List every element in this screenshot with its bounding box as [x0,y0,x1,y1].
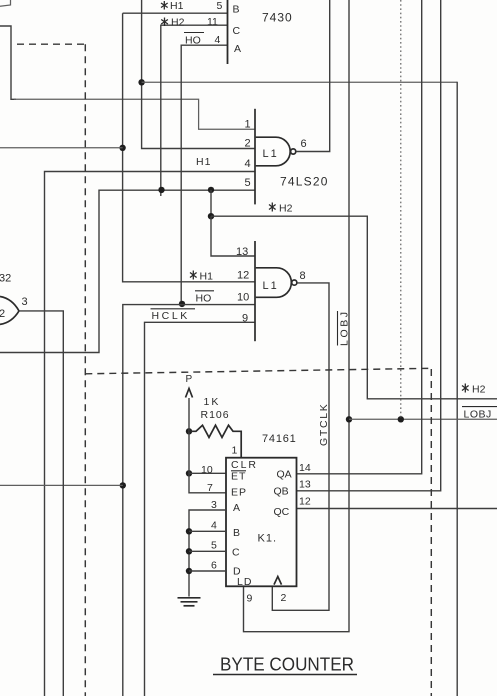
svg-text:7: 7 [207,482,213,494]
svg-text:EP: EP [231,487,247,499]
wire LOBJ vertical to K1 pin 9 [244,0,350,632]
svg-text:74LS20: 74LS20 [280,175,329,189]
wire QC to right edge [297,508,497,510]
svg-text:LOBJ: LOBJ [464,409,492,421]
node wire-y148 junction [119,145,125,151]
wire OR output 3 [19,311,63,696]
svg-text:QB: QB [274,486,289,498]
wire pin1 net (to L1 pin 1) [14,99,255,129]
svg-text:C: C [232,547,240,559]
node HO-pin10 junction [179,301,185,307]
svg-text:H1: H1 [196,156,211,168]
svg-text:K1.: K1. [258,533,278,545]
wire *H2 out to right edge [211,216,497,399]
svg-text:4: 4 [215,34,221,46]
wire HCLK pin 9 of L1b [145,322,256,696]
7430 U3 left edge [227,0,229,64]
svg-text:5: 5 [217,0,223,12]
node *H1 junction [138,79,144,85]
wire pin 6 D input [189,570,226,572]
svg-text:L1: L1 [263,148,279,160]
svg-text:13: 13 [299,479,311,491]
svg-text:3: 3 [211,499,217,511]
node D junction [186,568,192,574]
svg-text:9: 9 [242,313,248,325]
svg-text:H2: H2 [279,203,293,215]
svg-text:C: C [233,25,241,37]
label *H1 mid [190,271,213,283]
wire pin 3 A input [189,510,226,597]
wire *H2 drop [210,190,212,216]
wire pin1 net left bracket [0,26,16,99]
svg-text:14: 14 [299,462,311,474]
gate L1a input bar [254,109,256,205]
svg-text:1: 1 [245,119,251,131]
node LOBJ junction [346,416,352,422]
svg-text:HO: HO [196,293,212,305]
node x400 junction [398,416,404,422]
svg-text:5: 5 [211,540,217,552]
label HO top [184,33,221,47]
wire left entry y148 [0,147,123,149]
wire H1 net (pin 4 of L1) [45,172,256,696]
svg-text:4: 4 [245,158,251,170]
wire *H1 vertical from top to L1 pin 2 [142,0,255,149]
label HO mid [195,291,214,305]
dashed line left x85 [84,44,86,696]
wire pin 10 (ET) [189,472,226,474]
wire *H1 horizontal to 7430 pin 5 [123,12,228,14]
svg-text:R106: R106 [201,409,230,421]
label LOBJ vertical [338,309,351,346]
label *H2 mid [269,203,293,215]
wire left entry y485 [0,484,123,486]
svg-text:4: 4 [211,520,217,532]
svg-text:HCLK: HCLK [152,310,190,322]
svg-text:10: 10 [237,292,249,304]
nand gate L1a bubble [291,149,296,154]
wire pin 5 C input [189,550,226,552]
svg-text:2: 2 [245,138,251,150]
svg-text:74161: 74161 [262,433,297,445]
wire LOBJ out to right edge [349,418,497,420]
svg-text:B: B [233,527,240,539]
svg-text:32: 32 [0,273,11,285]
node pin5-H2 junction [208,187,214,193]
wire HO net pin 10 of L1b [123,305,255,696]
svg-text:LOBJ: LOBJ [339,309,351,346]
svg-text:5: 5 [245,177,251,189]
dashed box top-left [17,43,86,45]
wire pin 4 B input [189,530,226,532]
svg-text:6: 6 [301,138,307,150]
wire *H1 branch to pin 12 via x122 [123,13,255,282]
wire *H1 branch x457 vertical [456,82,458,696]
wire *H2 to 7430 pin 11 [161,25,228,196]
label ET overlined [231,471,246,483]
svg-text:A: A [233,502,240,514]
nand gate L1b bubble [292,280,297,285]
node C junction [186,548,192,554]
svg-text:A: A [234,43,241,55]
svg-text:B: B [233,4,240,16]
label *H2 right [462,384,486,396]
label BYTE COUNTER [213,654,357,675]
svg-text:8: 8 [300,270,306,282]
svg-text:12: 12 [299,496,311,508]
svg-text:2: 2 [0,308,5,320]
chip K1 74161 [226,458,297,587]
dashed box byte-counter top [85,368,431,374]
wire QA to top x422 [297,0,422,474]
svg-text:2: 2 [281,592,287,604]
wire QB to top x441 [297,0,441,491]
clock triangle K1 [274,577,282,585]
node B junction [186,528,192,534]
resistor R106 [189,425,241,458]
svg-text:12: 12 [237,270,249,282]
nand gate L1a body [256,137,290,166]
svg-text:H1: H1 [170,0,184,12]
svg-text:11: 11 [207,16,218,28]
svg-text:ET: ET [231,471,246,483]
wire output 8 / GTCLK to K1 pin 2 [272,283,329,610]
svg-text:LD: LD [237,576,252,588]
wire x400 dotted vertical [400,0,402,419]
svg-text:GTCLK: GTCLK [318,402,330,446]
svg-text:HO: HO [185,35,201,47]
dashed box byte-counter right [430,369,432,696]
label LOBJ right overlined [462,407,497,421]
wire pin 13 of L1b [211,216,255,256]
node P-pin10 junction [186,470,192,476]
svg-text:H1: H1 [200,271,214,283]
svg-text:H2: H2 [472,384,486,396]
wire P pull-up to CLR/ET/EP [189,398,226,493]
node *H2 junction [208,213,214,219]
svg-text:3: 3 [22,296,28,308]
ground [178,598,201,606]
P arrow [186,389,193,398]
wire *H1 branch y82 [142,81,458,83]
nand gate L1b body [256,268,292,298]
svg-text:QC: QC [274,506,290,518]
svg-text:1K: 1K [204,396,221,408]
label HCLK [151,309,196,322]
gate L1b input bar [254,241,256,341]
svg-text:9: 9 [247,593,253,605]
svg-text:L1: L1 [263,280,279,292]
label *H2 top [161,16,218,29]
svg-text:1: 1 [232,445,238,457]
node HO-y485 junction [120,482,126,488]
svg-text:P: P [186,374,193,385]
svg-text:QA: QA [277,469,292,481]
svg-text:6: 6 [211,560,217,572]
svg-text:CLR: CLR [231,459,258,471]
svg-text:7430: 7430 [262,11,293,25]
label *H1 top [161,0,223,12]
or-gate U2 (7432 partial) [0,297,19,325]
wire top-left stub [0,0,11,6]
svg-text:13: 13 [236,246,248,258]
node pin5-H2top junction [158,187,164,193]
svg-text:10: 10 [201,464,213,476]
node P-R106 junction [186,428,192,434]
svg-text:BYTE COUNTER: BYTE COUNTER [220,654,354,675]
wire output 6 [296,0,330,152]
svg-text:H2: H2 [171,17,185,29]
wire pin5 net from left edge y352 [0,190,255,352]
wire HO to 7430 pin 4 [181,45,227,304]
